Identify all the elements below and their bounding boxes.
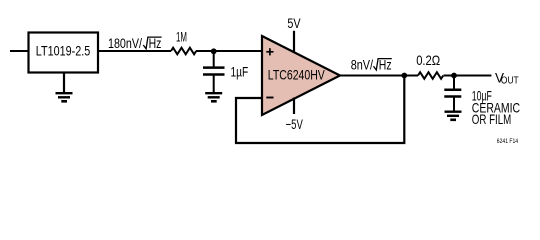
- svg-text:8nV/: 8nV/: [351, 56, 373, 72]
- svg-text:1µF: 1µF: [231, 63, 249, 79]
- label 10uF CERAMIC OR FILM: [472, 88, 520, 128]
- svg-text:Hz: Hz: [149, 35, 162, 51]
- svg-text:Hz: Hz: [379, 56, 392, 72]
- label 180nV/sqrt(Hz): [108, 35, 162, 51]
- svg-text:OUT: OUT: [501, 76, 519, 87]
- label 8nV/sqrt(Hz): [351, 56, 392, 72]
- svg-text:6241 F14: 6241 F14: [497, 138, 519, 145]
- node junction at C2: [451, 73, 457, 79]
- power stub +5V: [293, 31, 295, 53]
- svg-text:5V: 5V: [287, 15, 301, 31]
- svg-text:−5V: −5V: [286, 116, 304, 132]
- plus input symbol: [266, 48, 273, 55]
- wire R1 to op-amp +in: [196, 50, 262, 52]
- svg-text:0.2Ω: 0.2Ω: [416, 52, 440, 68]
- ground under LT1019: [56, 73, 73, 102]
- svg-text:180nV/: 180nV/: [108, 35, 142, 51]
- resistor R1 1M: [171, 48, 196, 55]
- voltage reference U2 LT1019-2.5: [29, 33, 99, 73]
- svg-text:LT1019-2.5: LT1019-2.5: [36, 43, 91, 59]
- op-amp U1 LTC6240HV: [262, 36, 340, 115]
- capacitor C2: [444, 76, 461, 112]
- resistor R2 0.2ohm: [418, 72, 443, 79]
- wire input stub: [10, 50, 28, 52]
- ground under C1: [205, 93, 222, 101]
- feedback wire: [236, 76, 404, 144]
- node output junction: [401, 73, 407, 79]
- power stub -5V: [293, 98, 295, 115]
- svg-text:1M: 1M: [176, 28, 187, 44]
- minus input symbol: [266, 97, 273, 99]
- svg-text:OR FILM: OR FILM: [472, 111, 512, 127]
- wire R2 to VOUT: [444, 75, 492, 77]
- label VOUT: [495, 70, 519, 87]
- wire LT1019 to R1: [98, 50, 171, 52]
- wire op-amp output: [339, 75, 418, 77]
- node junction at C1: [211, 48, 217, 54]
- svg-text:LTC6240HV: LTC6240HV: [268, 67, 325, 83]
- capacitor C1: [203, 51, 225, 93]
- ground under C2: [445, 112, 462, 120]
